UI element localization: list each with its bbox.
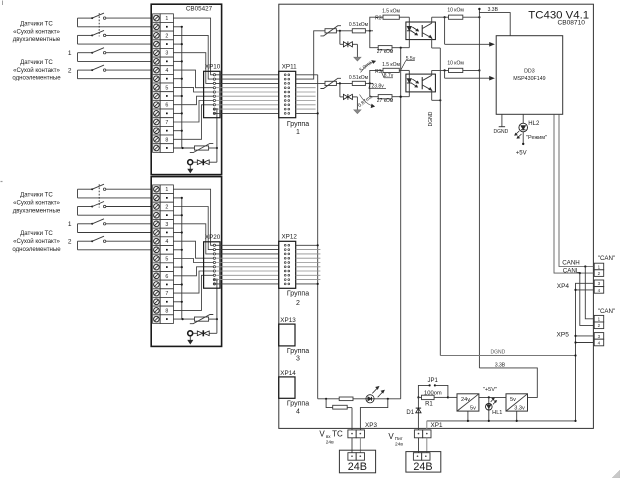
wire XP11-3 to channel B xyxy=(296,82,325,84)
pins XP11 xyxy=(284,74,289,114)
wire to XP3-1 xyxy=(326,399,333,408)
svg-text:24В: 24В xyxy=(348,461,367,473)
resistor R3 1.5kOhm A xyxy=(370,17,383,31)
svg-text:XP4: XP4 xyxy=(557,283,570,290)
connector XP12 xyxy=(279,241,296,288)
switch S3 block2 (single-element 1) xyxy=(78,223,93,225)
svg-text:XP12: XP12 xyxy=(281,233,297,240)
svg-text:"CAN": "CAN" xyxy=(598,308,615,315)
converter ground wire xyxy=(427,420,576,422)
connector XP4 pins xyxy=(594,263,604,293)
wire XP12-10 junction xyxy=(296,283,318,285)
svg-text:5: 5 xyxy=(165,257,168,263)
ground A xyxy=(354,57,361,61)
mcu DD3 MSP430F149 xyxy=(496,36,563,115)
wire return single2 block2 xyxy=(78,249,152,251)
svg-text:8: 8 xyxy=(165,308,168,314)
svg-text:HL2: HL2 xyxy=(528,121,540,127)
wire return pair1 block1 xyxy=(78,26,152,28)
svg-text:XP14: XP14 xyxy=(280,370,296,377)
wire common vertical A1 CB05427 xyxy=(216,109,218,162)
svg-text:2: 2 xyxy=(165,33,168,39)
connector XP3 xyxy=(348,430,356,438)
svg-text:D1: D1 xyxy=(406,410,414,416)
svg-text:DD3: DD3 xyxy=(524,69,535,75)
ground B xyxy=(354,110,361,114)
wires XP3 to battery xyxy=(351,438,353,453)
wire bundle XP10 to XP11 xyxy=(216,75,279,114)
svg-text:Пит: Пит xyxy=(395,436,404,441)
svg-text:R3: R3 xyxy=(375,69,382,75)
common bus wire A1 CB05427 xyxy=(173,26,183,148)
wire return single1 block1 xyxy=(78,60,152,62)
svg-text:XP1: XP1 xyxy=(431,422,443,429)
svg-text:двухэлементные: двухэлементные xyxy=(13,207,61,214)
switch S3 block1 (single-element 1) xyxy=(78,52,93,54)
wire 3.3V to DD3 xyxy=(479,13,510,36)
svg-text:4: 4 xyxy=(296,409,300,416)
DGND rail xyxy=(439,48,441,356)
svg-text:+5V: +5V xyxy=(516,151,527,157)
wires terminal rows to connector A2 xyxy=(173,189,218,310)
screw terminals A2 xyxy=(153,185,161,324)
wire XP4-4 ground xyxy=(576,289,595,291)
terminal number boxes A1 CB05427 xyxy=(160,14,173,153)
svg-text:10 кОм: 10 кОм xyxy=(447,61,464,67)
wire XP11-10 junction xyxy=(296,112,318,114)
wire return pair2 block2 xyxy=(78,214,152,216)
stub wires XP11 4-9 xyxy=(296,88,316,109)
svg-text:XP3: XP3 xyxy=(365,422,377,429)
wire common vertical A2 xyxy=(216,280,218,334)
svg-text:R1: R1 xyxy=(425,401,433,407)
svg-text:Группа: Группа xyxy=(287,121,309,128)
switch S4 block1 (single-element 2) xyxy=(78,69,93,71)
svg-text:5: 5 xyxy=(165,85,168,91)
emitter wire A xyxy=(432,47,441,49)
svg-text:2: 2 xyxy=(296,300,300,307)
svg-text:8: 8 xyxy=(165,137,168,143)
varistor RU A2 xyxy=(173,318,194,320)
svg-text:4: 4 xyxy=(165,239,168,245)
svg-text:1.5 кОм: 1.5 кОм xyxy=(382,9,400,15)
svg-text:«Сухой контакт»: «Сухой контакт» xyxy=(13,238,60,245)
svg-text:3: 3 xyxy=(165,222,168,228)
svg-text:1: 1 xyxy=(68,50,72,57)
svg-text:Датчики ТС: Датчики ТС xyxy=(20,230,53,237)
signal wire to DD3 A xyxy=(444,17,446,44)
wire CANL xyxy=(554,114,594,273)
switch S1 block2 (two-element sensor contact) xyxy=(78,188,93,190)
screw terminals A1 CB05427 xyxy=(153,14,161,153)
svg-text:MSP430F149: MSP430F149 xyxy=(513,76,545,82)
wire XP11-2 to channel A xyxy=(296,31,325,79)
connector XP20 xyxy=(204,242,220,288)
resistor 0.51kOhm B xyxy=(352,81,365,85)
connector XP10 xyxy=(204,71,220,117)
wire return pair2 block1 xyxy=(78,43,152,45)
wires terminal rows to connector A1 CB05427 xyxy=(173,18,218,139)
pins XP10 xyxy=(213,74,215,115)
suppressor diodes VD A2 xyxy=(188,331,193,336)
junction emitter B xyxy=(439,99,441,101)
wire XP5-3 ground xyxy=(576,335,595,337)
svg-text:2: 2 xyxy=(165,205,168,211)
optocoupler UA xyxy=(406,22,436,40)
svg-text:Группа: Группа xyxy=(287,401,309,408)
pins XP20 xyxy=(213,244,215,285)
wire inner bottom xyxy=(318,398,401,400)
stub wires XP12 2-9 xyxy=(296,250,321,280)
svg-text:«Сухой контакт»: «Сухой контакт» xyxy=(13,200,60,207)
svg-text:1: 1 xyxy=(165,187,168,193)
resistor R1 100ohm xyxy=(417,396,419,398)
svg-text:6: 6 xyxy=(165,103,168,109)
svg-text:XP13: XP13 xyxy=(280,317,296,324)
svg-text:100om: 100om xyxy=(424,390,442,396)
svg-text:0.51кОм: 0.51кОм xyxy=(349,75,369,81)
varistor RU B xyxy=(325,81,336,85)
wire XP1-2 ground xyxy=(426,421,428,430)
diode D1 xyxy=(417,397,419,430)
LED return rail xyxy=(400,48,402,399)
svg-text:CANL: CANL xyxy=(563,267,580,274)
connector XP14 xyxy=(279,377,295,398)
ground A2 xyxy=(189,336,191,341)
svg-text:Датчики ТС: Датчики ТС xyxy=(20,59,53,66)
svg-text:"CAN": "CAN" xyxy=(598,255,615,262)
svg-text:«Сухой контакт»: «Сухой контакт» xyxy=(13,28,60,35)
wire return single2 block1 xyxy=(78,78,152,80)
DGND horizontal wire xyxy=(440,355,575,357)
jumper JP1 xyxy=(418,385,429,397)
svg-text:вх: вх xyxy=(326,434,331,439)
svg-text:10 кОм: 10 кОм xyxy=(447,7,464,13)
wire 3.3V output xyxy=(479,368,537,398)
svg-text:7: 7 xyxy=(165,291,168,297)
svg-text:7: 7 xyxy=(165,120,168,126)
connector XP11 xyxy=(279,71,296,117)
svg-text:DGND: DGND xyxy=(491,350,506,356)
ground A1 CB05427 xyxy=(189,165,191,170)
svg-text:27 кОм: 27 кОм xyxy=(377,98,394,104)
terminal block A2 outline xyxy=(151,177,221,347)
switch S2 block1 xyxy=(78,34,93,36)
dcdc converter 5v-3.3v xyxy=(506,394,528,411)
resistor 0.51kOhm A xyxy=(352,29,365,33)
svg-text:24в: 24в xyxy=(326,439,334,445)
svg-text:Датчики ТС: Датчики ТС xyxy=(20,192,53,199)
resistor 10kOhm B xyxy=(432,69,449,71)
wire XP11-1 to return rail xyxy=(296,74,318,76)
wire CANH branch XP5 xyxy=(584,265,586,267)
svg-text:V: V xyxy=(388,432,394,441)
svg-text:Группа: Группа xyxy=(287,291,309,298)
optocoupler UB xyxy=(406,74,436,92)
svg-text:XP5: XP5 xyxy=(557,331,570,338)
led VD indicator xyxy=(366,395,374,403)
wire return pair1 block2 xyxy=(78,197,152,199)
varistor RU A1 CB05427 xyxy=(173,147,194,149)
wire CANH xyxy=(559,114,594,266)
fuse F2 xyxy=(333,405,348,409)
mechanical link dashed block2 xyxy=(98,184,100,207)
svg-text:2: 2 xyxy=(68,67,72,74)
svg-text:DGND: DGND xyxy=(494,129,509,135)
switch S2 block2 xyxy=(78,206,93,208)
svg-text:24В: 24В xyxy=(413,461,432,473)
corner smudge xyxy=(612,470,620,478)
svg-text:двухэлементные: двухэлементные xyxy=(13,36,61,43)
svg-text:0.51кОм: 0.51кОм xyxy=(349,22,369,28)
svg-text:1: 1 xyxy=(296,129,300,136)
TVS suppressor A xyxy=(339,31,341,45)
resistor R3 1.5kOhm B xyxy=(370,70,383,83)
svg-text:CANH: CANH xyxy=(562,260,580,267)
resistor 27kOhm B xyxy=(370,83,378,96)
svg-text:27 кОм: 27 кОм xyxy=(377,49,394,55)
3.3V rail xyxy=(478,9,480,368)
dcdc converter 24v-5v xyxy=(457,394,479,411)
wire return single1 block2 xyxy=(78,232,152,234)
module TC430 outline xyxy=(279,4,594,428)
wire CANL branch XP5 xyxy=(579,272,581,274)
suppressor diodes VD A1 CB05427 xyxy=(188,160,193,165)
svg-text:1: 1 xyxy=(165,16,168,22)
svg-text:5v: 5v xyxy=(510,397,516,403)
svg-text:"+5V": "+5V" xyxy=(483,387,497,393)
svg-text:3: 3 xyxy=(165,51,168,57)
svg-text:XP20: XP20 xyxy=(205,234,221,241)
connector XP5 pins xyxy=(594,315,604,345)
svg-text:"Режим": "Режим" xyxy=(526,135,547,141)
led HL2 xyxy=(522,114,524,123)
svg-text:2: 2 xyxy=(68,239,72,246)
resistor 10kOhm A xyxy=(432,16,449,18)
connector XP1 xyxy=(414,430,422,438)
varistor RU A xyxy=(325,29,336,33)
svg-text:CB05427: CB05427 xyxy=(186,6,213,13)
svg-text:3.3В: 3.3В xyxy=(488,7,499,13)
TVS suppressor B xyxy=(339,83,341,97)
svg-text:DGND: DGND xyxy=(428,111,434,126)
mechanical link dashed block1 xyxy=(98,13,100,36)
svg-text:V: V xyxy=(319,429,325,438)
svg-text:JP1: JP1 xyxy=(428,378,439,384)
common bus wire A2 xyxy=(173,197,183,319)
svg-text:HL1: HL1 xyxy=(492,410,502,416)
corner tick xyxy=(2,1,4,6)
svg-text:«Сухой контакт»: «Сухой контакт» xyxy=(13,67,60,74)
svg-text:СВ08710: СВ08710 xyxy=(557,19,585,26)
emitter wire B xyxy=(432,99,441,101)
svg-text:3: 3 xyxy=(296,356,300,363)
wire XP5-4 ground xyxy=(576,342,595,344)
svg-text:4: 4 xyxy=(165,68,168,74)
signal wire to DD3 B xyxy=(444,70,446,78)
wire +5V xyxy=(479,396,506,398)
svg-text:одноэлементные: одноэлементные xyxy=(12,75,61,82)
pins XP12 xyxy=(284,244,289,284)
svg-text:Датчики ТС: Датчики ТС xyxy=(20,21,53,28)
connector XP13 xyxy=(279,324,295,346)
wire XP12-1 junction xyxy=(296,244,318,246)
wire to XP3-2 xyxy=(360,399,387,430)
resistor 27kOhm A xyxy=(370,31,378,48)
wire R1 to converter xyxy=(448,396,457,398)
svg-text:5v: 5v xyxy=(470,405,476,411)
terminal number boxes A2 xyxy=(160,185,173,324)
svg-text:ТС: ТС xyxy=(332,429,343,438)
svg-text:одноэлементные: одноэлементные xyxy=(12,246,61,253)
battery 24V supply xyxy=(406,452,441,473)
wires XP1 to battery xyxy=(418,438,420,453)
svg-text:Группа: Группа xyxy=(287,348,309,355)
svg-text:R3: R3 xyxy=(375,16,382,22)
switch S4 block2 (single-element 2) xyxy=(78,240,93,242)
wire bundle XP20 to XP12 xyxy=(216,245,279,284)
return rail (input common) xyxy=(317,75,319,399)
svg-text:XP10: XP10 xyxy=(205,64,221,71)
fuse F1 xyxy=(339,397,353,401)
DGND pin DD3 xyxy=(501,114,503,126)
svg-text:1.5 кОм: 1.5 кОм xyxy=(382,62,400,68)
wire XP4-3 ground xyxy=(576,283,595,421)
svg-text:1: 1 xyxy=(68,221,72,228)
svg-text:3.3v: 3.3v xyxy=(514,405,525,411)
svg-text:24v: 24v xyxy=(461,397,470,403)
svg-text:24в: 24в xyxy=(395,442,403,448)
led HL1 xyxy=(488,397,490,421)
svg-text:6: 6 xyxy=(165,274,168,280)
svg-text:XP11: XP11 xyxy=(282,63,297,70)
switch S1 block1 (two-element sensor contact) xyxy=(78,17,93,19)
edge speck xyxy=(1,181,3,183)
terminal block A1 CB05427 outline xyxy=(151,4,221,174)
battery 24V TC xyxy=(339,450,375,473)
svg-text:3.3В: 3.3В xyxy=(495,362,506,368)
